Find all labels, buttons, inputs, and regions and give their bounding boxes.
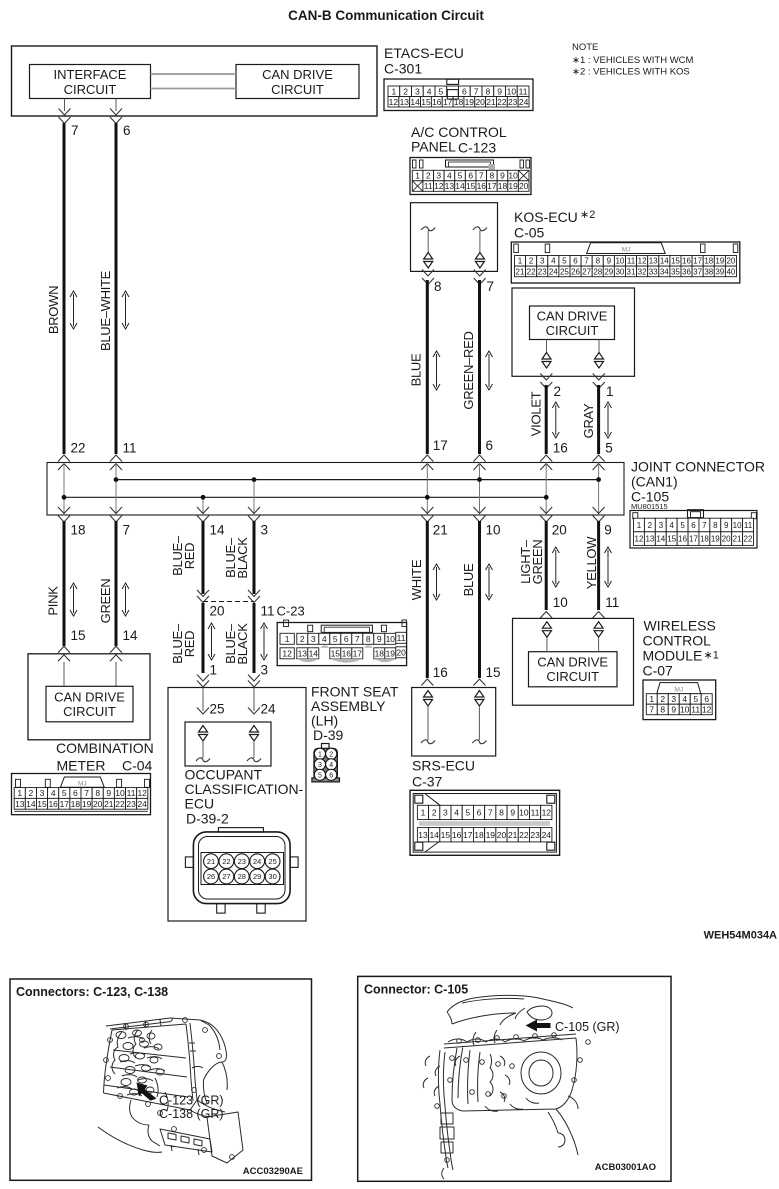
svg-text:11: 11 — [424, 181, 433, 191]
module WCM box — [513, 618, 634, 705]
svg-text:JOINT CONNECTOR: JOINT CONNECTOR — [631, 459, 765, 475]
svg-text:2: 2 — [432, 808, 437, 818]
svg-text:20: 20 — [396, 647, 406, 657]
arrow W14 — [607, 550, 609, 584]
svg-text:23: 23 — [508, 97, 518, 107]
can drive circuit box (KOS) — [530, 306, 615, 340]
A/C pin at x=428.2 — [421, 227, 435, 231]
svg-text:2: 2 — [648, 521, 653, 530]
svg-text:1: 1 — [606, 384, 614, 399]
arrow W4 — [488, 354, 490, 387]
svg-text:KOS-ECU: KOS-ECU — [514, 209, 578, 225]
svg-text:PANEL: PANEL — [411, 139, 456, 155]
svg-text:10: 10 — [615, 257, 624, 266]
svg-text:11: 11 — [691, 705, 700, 715]
svg-text:30: 30 — [615, 267, 624, 276]
svg-text:23: 23 — [530, 830, 540, 840]
svg-text:21: 21 — [508, 830, 518, 840]
svg-text:23: 23 — [538, 267, 547, 276]
svg-text:INTERFACE: INTERFACE — [54, 67, 127, 82]
svg-text:2: 2 — [329, 751, 333, 758]
svg-text:21: 21 — [733, 535, 742, 544]
svg-text:MU801515: MU801515 — [631, 502, 668, 511]
svg-text:19: 19 — [711, 535, 720, 544]
svg-text:6: 6 — [462, 86, 467, 96]
svg-text:10: 10 — [733, 521, 742, 530]
svg-text:10: 10 — [519, 808, 529, 818]
connector C-105 — [630, 511, 757, 549]
svg-text:4: 4 — [682, 694, 687, 704]
svg-text:WIRELESS: WIRELESS — [644, 618, 716, 634]
svg-text:14: 14 — [26, 799, 36, 809]
svg-text:7: 7 — [71, 123, 79, 138]
svg-text:12: 12 — [702, 705, 712, 715]
svg-text:2: 2 — [554, 384, 562, 399]
KOS exit chevrons — [540, 374, 552, 381]
svg-text:19: 19 — [486, 830, 496, 840]
svg-text:7: 7 — [355, 634, 360, 644]
svg-text:13: 13 — [298, 648, 308, 658]
arrow W10 — [263, 626, 265, 657]
svg-text:9: 9 — [106, 788, 111, 798]
svg-text:15: 15 — [667, 535, 676, 544]
svg-text:1: 1 — [210, 663, 218, 678]
svg-text:13: 13 — [649, 257, 658, 266]
svg-text:C-07: C-07 — [643, 663, 674, 679]
arrow W5 — [555, 405, 557, 435]
connector D-39-2 round — [193, 832, 290, 904]
svg-text:C-138 (GR): C-138 (GR) — [159, 1107, 224, 1121]
svg-text:C-05: C-05 — [514, 225, 545, 241]
svg-text:7: 7 — [487, 279, 495, 294]
svg-text:25: 25 — [560, 267, 569, 276]
svg-text:3: 3 — [40, 788, 45, 798]
svg-text:2: 2 — [29, 788, 34, 798]
panel 1 Connectors C-123 C-138 — [10, 979, 312, 1180]
svg-text:METER: METER — [57, 758, 106, 774]
svg-text:34: 34 — [660, 267, 669, 276]
svg-text:BLUE: BLUE — [409, 353, 424, 386]
svg-text:5: 5 — [333, 634, 338, 644]
svg-text:20: 20 — [726, 257, 735, 266]
svg-text:C-23: C-23 — [277, 604, 305, 619]
svg-text:20: 20 — [475, 97, 485, 107]
KOS pin at x=599 — [598, 340, 600, 353]
wire W12 (joint 10 to SRS 15) BLUE — [478, 521, 481, 678]
svg-text:9: 9 — [607, 257, 612, 266]
svg-text:CIRCUIT: CIRCUIT — [546, 669, 599, 684]
svg-text:3: 3 — [261, 663, 269, 678]
meter internal leads — [63, 662, 65, 686]
connector C-07 — [643, 680, 716, 720]
svg-text:28: 28 — [593, 267, 602, 276]
svg-text:2: 2 — [660, 694, 665, 704]
connector C-23 — [277, 623, 406, 666]
occupant inner box — [185, 722, 271, 766]
svg-text:∗2 : VEHICLES WITH KOS: ∗2 : VEHICLES WITH KOS — [572, 67, 690, 78]
svg-text:5: 5 — [693, 694, 698, 704]
svg-text:20: 20 — [210, 604, 225, 619]
occupant pin x=203 — [199, 726, 208, 733]
svg-text:12: 12 — [137, 788, 147, 798]
svg-text:18: 18 — [704, 257, 713, 266]
svg-text:10: 10 — [680, 705, 690, 715]
svg-text:24: 24 — [542, 830, 552, 840]
svg-text:5: 5 — [605, 441, 613, 456]
svg-text:3: 3 — [443, 808, 448, 818]
svg-text:24: 24 — [519, 97, 529, 107]
svg-text:7: 7 — [84, 788, 89, 798]
can drive circuit box (WCM) — [529, 652, 618, 687]
svg-text:CIRCUIT: CIRCUIT — [64, 82, 117, 97]
svg-text:18: 18 — [498, 181, 508, 191]
svg-text:5: 5 — [318, 772, 322, 779]
KOS pin at x=546.5 — [546, 340, 548, 353]
svg-text:4: 4 — [329, 762, 333, 769]
svg-text:11: 11 — [531, 808, 540, 818]
arrow W13 — [555, 550, 557, 584]
svg-text:6: 6 — [477, 808, 482, 818]
svg-text:26: 26 — [571, 267, 580, 276]
svg-text:C-04: C-04 — [122, 758, 153, 774]
svg-text:COMBINATION: COMBINATION — [56, 740, 154, 756]
svg-text:5: 5 — [439, 86, 444, 96]
svg-text:3: 3 — [261, 523, 269, 538]
module A/C control panel box — [411, 203, 498, 272]
occupant entry leads — [202, 688, 204, 712]
svg-text:5: 5 — [562, 257, 567, 266]
svg-text:13: 13 — [418, 830, 428, 840]
connector C-04 — [12, 774, 151, 815]
svg-text:24: 24 — [137, 799, 147, 809]
svg-text:BLUE: BLUE — [461, 563, 476, 596]
svg-text:15: 15 — [421, 97, 431, 107]
svg-text:24: 24 — [253, 857, 261, 866]
svg-text:14: 14 — [656, 535, 665, 544]
wire W1 (ETACS pin7 to joint pin22) BROWN — [63, 123, 66, 454]
svg-text:30: 30 — [268, 872, 276, 881]
svg-text:2: 2 — [403, 86, 408, 96]
svg-text:D-39: D-39 — [313, 727, 344, 743]
svg-text:21: 21 — [516, 267, 525, 276]
joint exit chevrons — [58, 507, 70, 514]
svg-text:32: 32 — [638, 267, 647, 276]
svg-text:BLUE–WHITE: BLUE–WHITE — [98, 270, 113, 351]
svg-text:14: 14 — [429, 830, 439, 840]
arrow W6 — [607, 405, 609, 435]
svg-text:ECU: ECU — [185, 796, 215, 812]
svg-text:19: 19 — [465, 97, 475, 107]
svg-text:16: 16 — [433, 665, 448, 680]
svg-text:24: 24 — [549, 267, 558, 276]
svg-text:1: 1 — [637, 521, 642, 530]
wire W8 (joint 7 to meter 14) GREEN — [115, 521, 118, 646]
ETACS pin 7 lead — [64, 99, 66, 112]
panel 2 Connector C-105 — [358, 976, 671, 1181]
wire W3 (A/C pin8 to joint 17) BLUE — [426, 280, 429, 454]
svg-text:11: 11 — [261, 604, 275, 619]
svg-text:22: 22 — [71, 441, 86, 456]
svg-text:13: 13 — [15, 799, 25, 809]
bus line 1 — [116, 479, 599, 481]
svg-text:8: 8 — [490, 171, 495, 181]
can drive circuit box (meter) — [46, 686, 133, 722]
svg-text:CAN DRIVE: CAN DRIVE — [537, 309, 608, 324]
svg-text:12: 12 — [638, 257, 647, 266]
connector C-37 — [410, 790, 560, 855]
can drive circuit box (ETACS) — [236, 65, 359, 99]
svg-text:GREEN: GREEN — [98, 579, 113, 624]
arrow W1 — [73, 294, 75, 326]
svg-text:CAN-B Communication Circuit: CAN-B Communication Circuit — [288, 8, 484, 23]
svg-text:17: 17 — [433, 438, 448, 453]
junction dots — [114, 477, 119, 482]
gray link lines between circuits — [151, 73, 237, 75]
svg-text:5: 5 — [680, 521, 685, 530]
svg-text:12: 12 — [389, 97, 399, 107]
svg-text:C-37: C-37 — [412, 774, 443, 790]
svg-text:18: 18 — [71, 799, 81, 809]
svg-text:10: 10 — [486, 523, 501, 538]
wire W9 upper (joint 14 to C-23 20) BLUE-RED — [202, 521, 205, 594]
svg-text:NOTE: NOTE — [572, 42, 598, 53]
svg-text:9: 9 — [724, 521, 729, 530]
svg-text:16: 16 — [477, 181, 487, 191]
svg-text:9: 9 — [497, 86, 502, 96]
module occupant classification big box — [168, 688, 306, 922]
svg-text:14: 14 — [123, 628, 139, 643]
svg-text:8: 8 — [366, 634, 371, 644]
svg-text:14: 14 — [410, 97, 420, 107]
svg-text:19: 19 — [386, 648, 396, 658]
svg-text:11: 11 — [397, 633, 406, 643]
svg-text:22: 22 — [744, 535, 753, 544]
svg-text:3: 3 — [415, 86, 420, 96]
svg-text:10: 10 — [508, 171, 518, 181]
svg-text:22: 22 — [115, 799, 125, 809]
svg-text:3: 3 — [311, 634, 316, 644]
svg-text:Connector: C-105: Connector: C-105 — [364, 983, 468, 997]
interface circuit box — [30, 65, 151, 99]
connector C-05 — [511, 242, 740, 283]
connector C-301 — [384, 79, 533, 111]
wire W10 upper (joint 3 to C-23 11) BLUE-BLACK — [253, 521, 256, 594]
svg-text:MJ: MJ — [674, 687, 683, 694]
SRS pin x=479.4 — [475, 691, 484, 698]
arrow W12 — [488, 567, 490, 597]
svg-text:MJ: MJ — [622, 247, 631, 254]
wire W4 (A/C pin7 to joint 6) GREEN-RED — [478, 280, 481, 454]
svg-text:3: 3 — [318, 762, 322, 769]
svg-text:13: 13 — [645, 535, 654, 544]
svg-text:5: 5 — [62, 788, 67, 798]
svg-text:∗2: ∗2 — [580, 209, 595, 221]
connector D-39 — [322, 744, 330, 749]
connector C-123 — [410, 158, 531, 195]
svg-text:35: 35 — [671, 267, 680, 276]
svg-text:33: 33 — [649, 267, 658, 276]
wire W13 (joint 20 to WCM 10) LIGHT-GREEN — [545, 521, 548, 610]
svg-text:15: 15 — [441, 830, 451, 840]
svg-text:37: 37 — [693, 267, 702, 276]
svg-text:CAN DRIVE: CAN DRIVE — [537, 655, 608, 670]
svg-text:ETACS-ECU: ETACS-ECU — [384, 45, 464, 61]
svg-text:27: 27 — [582, 267, 591, 276]
svg-text:12: 12 — [542, 808, 552, 818]
svg-text:9: 9 — [500, 171, 505, 181]
svg-text:7: 7 — [474, 86, 479, 96]
svg-text:39: 39 — [715, 267, 724, 276]
svg-text:16: 16 — [553, 441, 568, 456]
svg-text:CIRCUIT: CIRCUIT — [271, 82, 324, 97]
svg-text:16: 16 — [682, 257, 691, 266]
arrow W9 — [211, 626, 213, 657]
svg-text:15: 15 — [486, 665, 501, 680]
svg-text:15: 15 — [71, 628, 86, 643]
svg-text:8: 8 — [486, 86, 491, 96]
svg-text:11: 11 — [605, 595, 619, 610]
svg-text:GRAY: GRAY — [581, 403, 596, 438]
svg-text:12: 12 — [282, 648, 292, 658]
svg-text:4: 4 — [454, 808, 459, 818]
svg-text:14: 14 — [309, 648, 319, 658]
svg-text:14: 14 — [660, 257, 669, 266]
svg-text:4: 4 — [51, 788, 56, 798]
svg-text:16: 16 — [48, 799, 58, 809]
svg-text:18: 18 — [474, 830, 484, 840]
dashed connector line C-23 — [203, 601, 254, 603]
svg-text:22: 22 — [519, 830, 529, 840]
svg-text:24: 24 — [261, 702, 277, 717]
panel 1 arrow — [137, 1083, 157, 1101]
svg-text:1: 1 — [318, 751, 322, 758]
arrow W8 — [125, 586, 127, 613]
svg-text:9: 9 — [377, 634, 382, 644]
svg-text:C-105 (GR): C-105 (GR) — [555, 1020, 620, 1034]
svg-text:10: 10 — [507, 86, 517, 96]
svg-text:7: 7 — [488, 808, 493, 818]
svg-text:18: 18 — [700, 535, 709, 544]
svg-text:∗1: ∗1 — [704, 650, 719, 662]
svg-text:22: 22 — [222, 857, 230, 866]
svg-text:7: 7 — [702, 521, 707, 530]
svg-text:C-301: C-301 — [384, 61, 422, 77]
svg-text:21: 21 — [104, 799, 114, 809]
svg-text:ACC03290AE: ACC03290AE — [243, 1166, 303, 1177]
svg-text:11: 11 — [123, 441, 137, 456]
svg-text:8: 8 — [596, 257, 601, 266]
svg-text:CIRCUIT: CIRCUIT — [63, 704, 116, 719]
svg-text:23: 23 — [126, 799, 136, 809]
svg-text:21: 21 — [486, 97, 496, 107]
svg-text:21: 21 — [207, 857, 215, 866]
svg-text:14: 14 — [210, 523, 226, 538]
svg-text:15: 15 — [37, 799, 47, 809]
svg-text:SRS-ECU: SRS-ECU — [412, 758, 475, 774]
svg-text:2: 2 — [300, 634, 305, 644]
svg-text:12: 12 — [434, 181, 444, 191]
svg-text:10: 10 — [115, 788, 125, 798]
svg-text:3: 3 — [540, 257, 545, 266]
svg-text:25: 25 — [268, 857, 276, 866]
svg-text:10: 10 — [386, 634, 396, 644]
svg-text:9: 9 — [510, 808, 515, 818]
svg-text:7: 7 — [123, 523, 131, 538]
svg-text:6: 6 — [73, 788, 78, 798]
svg-text:1: 1 — [649, 694, 654, 704]
svg-text:11: 11 — [627, 257, 636, 266]
svg-text:2: 2 — [426, 171, 431, 181]
ETACS pin 6 lead — [115, 99, 117, 112]
arrow W2 — [125, 294, 127, 326]
svg-text:7: 7 — [584, 257, 589, 266]
svg-text:GREEN: GREEN — [530, 540, 545, 585]
svg-text:PINK: PINK — [46, 586, 61, 616]
svg-text:1: 1 — [518, 257, 523, 266]
svg-text:29: 29 — [253, 872, 261, 881]
svg-text:6: 6 — [704, 694, 709, 704]
svg-text:6: 6 — [329, 772, 333, 779]
svg-text:6: 6 — [573, 257, 578, 266]
A/C exit chevrons — [422, 270, 434, 277]
svg-text:6: 6 — [468, 171, 473, 181]
svg-text:20: 20 — [552, 523, 567, 538]
svg-text:36: 36 — [682, 267, 691, 276]
svg-text:3: 3 — [659, 521, 664, 530]
wire W6 (KOS pin1 to joint 5) GRAY — [597, 385, 600, 454]
svg-text:11: 11 — [127, 788, 136, 798]
svg-text:BLACK: BLACK — [235, 623, 250, 665]
svg-text:C-123 (GR): C-123 (GR) — [159, 1094, 224, 1108]
svg-text:20: 20 — [497, 830, 507, 840]
svg-text:1: 1 — [392, 86, 397, 96]
svg-text:7: 7 — [479, 171, 484, 181]
svg-text:12: 12 — [635, 535, 644, 544]
svg-text:23: 23 — [238, 857, 246, 866]
svg-text:14: 14 — [455, 181, 465, 191]
svg-text:15: 15 — [466, 181, 476, 191]
svg-text:6: 6 — [344, 634, 349, 644]
svg-text:WHITE: WHITE — [409, 559, 424, 600]
svg-text:17: 17 — [353, 648, 363, 658]
SRS pin x=428 — [424, 691, 433, 698]
svg-text:Connectors: C-123, C-138: Connectors: C-123, C-138 — [16, 985, 168, 999]
svg-text:29: 29 — [604, 267, 613, 276]
svg-text:20: 20 — [519, 181, 529, 191]
svg-text:YELLOW: YELLOW — [584, 536, 599, 589]
svg-text:5: 5 — [465, 808, 470, 818]
joint connector (CAN1) box — [47, 463, 624, 516]
svg-text:5: 5 — [458, 171, 463, 181]
svg-text:9: 9 — [671, 705, 676, 715]
svg-text:∗1 : VEHICLES WITH WCM: ∗1 : VEHICLES WITH WCM — [572, 55, 694, 66]
svg-text:4: 4 — [551, 257, 556, 266]
wire W2 (ETACS pin6 to joint pin11) BLUE-WHITE — [115, 123, 118, 454]
svg-text:11: 11 — [744, 521, 753, 530]
svg-text:8: 8 — [499, 808, 504, 818]
svg-text:18: 18 — [71, 523, 86, 538]
svg-text:7: 7 — [649, 705, 654, 715]
svg-text:26: 26 — [207, 872, 215, 881]
WCM pin x=546.9 — [542, 622, 551, 629]
svg-text:RED: RED — [182, 631, 197, 658]
svg-text:6: 6 — [691, 521, 696, 530]
svg-text:3: 3 — [671, 694, 676, 704]
svg-text:(CAN1): (CAN1) — [631, 474, 678, 490]
arrow W3 — [436, 354, 438, 387]
wire W11 (joint 21 to SRS 16) WHITE — [426, 521, 429, 678]
svg-text:40: 40 — [726, 267, 735, 276]
